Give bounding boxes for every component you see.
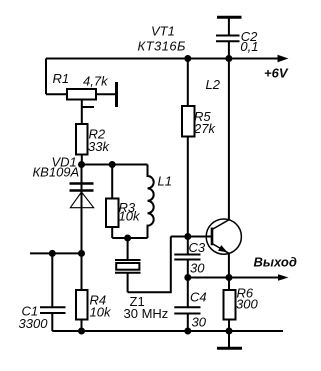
wire: Z1 bottom to base riser [128, 237, 171, 293]
junction dot [124, 235, 131, 242]
junction dot [78, 250, 85, 257]
ground symbol [217, 331, 242, 348]
svg-text:4,7k: 4,7k [83, 74, 109, 89]
svg-text:C3: C3 [189, 240, 206, 255]
capacitor C4 [174, 278, 200, 332]
wire: left node stub [30, 252, 82, 254]
svg-text:10k: 10k [90, 305, 112, 320]
junction dot [184, 233, 191, 240]
inductor L1 [148, 165, 154, 239]
svg-text:L1: L1 [158, 174, 172, 189]
junction dot [226, 328, 233, 335]
svg-text:33k: 33k [88, 139, 110, 154]
wire: +6V top rail [46, 58, 279, 60]
wire: base line [171, 236, 212, 238]
junction dot [78, 328, 85, 335]
junction dot [184, 55, 191, 62]
output arrow [278, 274, 289, 281]
svg-text:10k: 10k [119, 209, 141, 224]
junction dot [109, 161, 116, 168]
resistor R1 (trimmer) [46, 89, 117, 124]
svg-text:30: 30 [190, 261, 205, 276]
transistor VT1 [206, 219, 241, 278]
varactor diode VD1 [70, 165, 94, 254]
junction dot [78, 161, 85, 168]
svg-text:КВ109А: КВ109А [33, 165, 80, 180]
node: varactor top node wire [82, 164, 148, 166]
svg-text:R1: R1 [53, 71, 70, 86]
svg-text:300: 300 [236, 297, 258, 312]
svg-text:VT1: VT1 [151, 24, 175, 39]
svg-text:27k: 27k [193, 121, 216, 136]
resistor R6 [224, 278, 236, 332]
capacitor C2 [216, 18, 240, 59]
capacitor C3 [174, 237, 200, 278]
crystal Z1 [115, 238, 141, 292]
wire: bottom ground rail [52, 330, 283, 332]
svg-text:0,1: 0,1 [240, 39, 258, 54]
junction dot [226, 274, 233, 281]
svg-text:L2: L2 [206, 77, 221, 92]
junction dot [49, 250, 56, 257]
inductor L2 (wire from rail to collector) [228, 59, 230, 220]
wire: output line [188, 277, 279, 279]
wire: left drop from rail to R1 [45, 59, 47, 95]
resistor R2 [76, 124, 88, 165]
junction dot [184, 328, 191, 335]
junction dot [225, 55, 232, 62]
resistor R3 [106, 165, 119, 239]
svg-text:C4: C4 [190, 290, 207, 305]
resistor R4 [76, 253, 88, 331]
resistor R5 [182, 59, 195, 237]
svg-text:30 MHz: 30 MHz [124, 306, 169, 321]
svg-text:+6V: +6V [264, 66, 289, 81]
svg-text:30: 30 [192, 315, 207, 330]
wire: bottom of L1/R3 [112, 237, 147, 239]
terminal bar above C2 [217, 16, 242, 19]
+6V arrow [278, 55, 289, 62]
junction dot [184, 274, 191, 281]
terminator bar at R1 right end [115, 82, 118, 107]
svg-text:КТ316Б: КТ316Б [138, 39, 187, 54]
svg-text:Выход: Выход [254, 254, 297, 269]
capacitor C1 [40, 253, 66, 331]
svg-text:3300: 3300 [19, 316, 49, 331]
